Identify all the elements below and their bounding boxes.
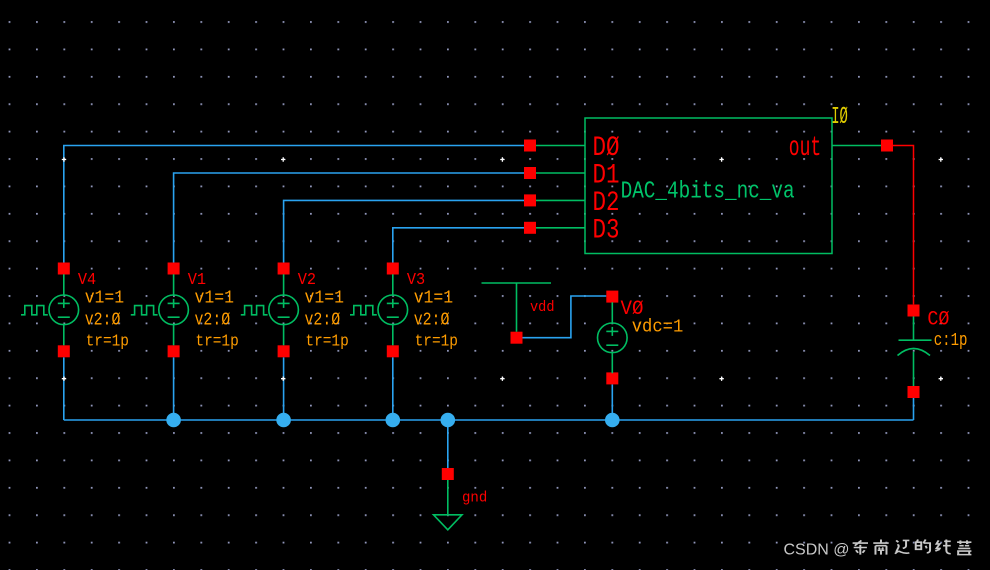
- svg-text:v1=1: v1=1: [305, 288, 345, 308]
- svg-text:V1: V1: [188, 271, 206, 290]
- junction node at V2 / bus: [276, 413, 291, 428]
- voltage source V3 (vpulse): [350, 274, 408, 345]
- pin square V3 minus: [387, 345, 399, 357]
- pin square V4 minus: [58, 345, 70, 357]
- pin square C0 bottom: [908, 386, 920, 398]
- svg-text:v1=1: v1=1: [195, 288, 235, 308]
- svg-text:tr=1p: tr=1p: [415, 332, 458, 351]
- wire V2 bottom to bus: [283, 357, 285, 420]
- power symbol vdd: [482, 283, 552, 332]
- voltage source V1 (vpulse): [131, 274, 189, 345]
- wire V0 bottom to bus: [611, 384, 613, 420]
- svg-text:vdd: vdd: [530, 299, 555, 316]
- svg-text:gnd: gnd: [462, 490, 487, 507]
- wire net D3 from V3 to pin D3: [393, 228, 524, 263]
- wire net D1 from V1 to pin D1: [174, 173, 524, 263]
- capacitor C0 symbol: [898, 317, 932, 387]
- svg-text:v1=1: v1=1: [85, 288, 125, 308]
- svg-text:tr=1p: tr=1p: [305, 332, 348, 351]
- junction node at V3 / bus: [386, 413, 401, 428]
- wire C0 bottom to bus: [913, 398, 915, 420]
- watermark CSDN: [784, 542, 850, 559]
- pin stub out: [832, 145, 881, 147]
- watermark glyphs: [853, 540, 972, 555]
- ground symbol gnd: [434, 480, 463, 530]
- wire net D2 from V2 to pin D2: [284, 200, 524, 262]
- voltage source V4 (vpulse): [21, 274, 79, 345]
- svg-text:DØ: DØ: [593, 133, 620, 164]
- instance I0 DAC_4bits_nc_va body: [585, 118, 832, 254]
- pin square V4 plus: [58, 263, 70, 275]
- pin square V2 minus: [278, 345, 290, 357]
- junction node at gnd / bus: [441, 413, 456, 428]
- wire bus to gnd symbol: [447, 420, 449, 468]
- wire net out (red) from out pin to C0: [893, 146, 914, 305]
- voltage source V2 (vpulse): [241, 274, 299, 345]
- pin square V1 plus: [168, 263, 180, 275]
- svg-text:V4: V4: [78, 271, 96, 290]
- svg-text:v2:Ø: v2:Ø: [414, 310, 450, 330]
- pin square V1 minus: [168, 345, 180, 357]
- wire net D0 from V4 to pin D0: [64, 146, 524, 263]
- voltage source V0 (vdc): [598, 302, 628, 373]
- pin stub D1: [536, 172, 585, 174]
- svg-text:IØ: IØ: [831, 104, 848, 131]
- junction node at V1 / bus: [166, 413, 181, 428]
- svg-text:D1: D1: [593, 161, 620, 192]
- pin square V2 plus: [278, 263, 290, 275]
- svg-text:v2:Ø: v2:Ø: [305, 310, 341, 330]
- pin stub D2: [536, 199, 585, 201]
- pin stub D3: [536, 227, 585, 229]
- wire V1 bottom to bus: [173, 357, 175, 420]
- pin square D0: [524, 140, 536, 152]
- svg-text:V2: V2: [298, 271, 316, 290]
- pin square out: [881, 140, 893, 152]
- pin square D3: [524, 222, 536, 234]
- svg-text:c:1p: c:1p: [934, 331, 968, 351]
- svg-text:v2:Ø: v2:Ø: [195, 310, 231, 330]
- pin stub D0: [536, 145, 585, 147]
- svg-text:DAC_4bits_nc_va: DAC_4bits_nc_va: [621, 179, 795, 206]
- svg-text:v1=1: v1=1: [414, 288, 454, 308]
- junction node at V0 / bus: [605, 413, 620, 428]
- svg-text:V3: V3: [407, 271, 425, 290]
- svg-text:CSDN @: CSDN @: [784, 542, 850, 559]
- pin square D2: [524, 194, 536, 206]
- pin square vdd: [511, 332, 523, 344]
- svg-text:CØ: CØ: [927, 309, 949, 332]
- wire ground bus: [64, 419, 914, 421]
- svg-text:vdc=1: vdc=1: [632, 318, 684, 338]
- wire V3 bottom to bus: [392, 357, 394, 420]
- pin square gnd: [442, 468, 454, 480]
- wire vdd to V0 plus: [523, 296, 607, 338]
- pin square C0 top: [908, 305, 920, 317]
- pin square V3 plus: [387, 263, 399, 275]
- svg-text:tr=1p: tr=1p: [195, 332, 238, 351]
- wire V4 bottom to ground bus: [63, 357, 65, 420]
- svg-text:D3: D3: [593, 215, 620, 246]
- svg-text:out: out: [789, 133, 821, 164]
- pin square V0 minus: [606, 372, 618, 384]
- pin square D1: [524, 167, 536, 179]
- pin square V0 plus: [606, 291, 618, 303]
- svg-text:D2: D2: [593, 188, 620, 219]
- svg-text:v2:Ø: v2:Ø: [85, 310, 121, 330]
- svg-text:tr=1p: tr=1p: [86, 332, 129, 351]
